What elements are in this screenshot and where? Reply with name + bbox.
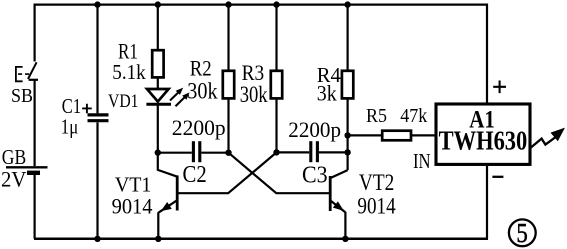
wire top supply rail [34,3,488,5]
wire left branch top (rail to switch) [33,4,35,62]
transistor VT2 base bar [329,176,332,211]
svg-text:R5: R5 [366,105,387,127]
junction dot node C [273,149,279,155]
wire VT1 collector lead [158,153,177,177]
transistor VT1 base bar [176,175,179,210]
wire VT2 emitter to bottom rail [344,212,346,239]
wire R2 to node B [227,98,229,152]
wire R3 to node C [275,98,277,152]
transistor VT2 emitter arrow [333,201,344,211]
wire cross-coupling node C to VT1 base [178,152,276,193]
output radiation zigzag arrow [530,137,556,148]
wire R2 branch from rail [227,5,229,71]
wire node A to C2 left plate [158,152,192,154]
svg-text:9014: 9014 [357,194,396,219]
svg-text:C2: C2 [183,162,207,188]
svg-text:IN: IN [413,149,431,173]
wire VT2 collector lead [331,170,348,178]
resistor R3 body [271,71,282,99]
wire VD1 to node A (VT1 collector node) [157,104,159,152]
junction dot node B [225,150,231,156]
resistor R4 body [342,71,353,99]
capacitor C2 left plate [192,141,195,162]
wire cross-coupling node B to VT2 base [229,153,331,194]
svg-text:5.1k: 5.1k [112,60,146,84]
capacitor C1 top plate [88,113,109,116]
LED VD1 light arrow 1 [170,92,179,100]
wire R4 to VT2 collector node [347,98,349,170]
wire VT2 collector node to R5 [348,134,383,136]
svg-text:2200p: 2200p [172,115,226,140]
switch SB actuator dashed link [18,73,30,75]
junction dot C3/R4 [344,149,350,155]
svg-text:5: 5 [516,218,527,248]
transistor VT1 emitter lead [159,200,178,212]
switch SB pushbutton actuator bracket [16,67,23,81]
svg-text:30k: 30k [240,82,268,107]
svg-text:1μ: 1μ [61,115,78,139]
battery GB short plate [27,171,40,175]
capacitor C1 bottom plate [88,119,109,122]
IC A1 TWH630 box [436,104,530,164]
junction dot rail/R2 [225,1,231,7]
wire R1 branch from rail [157,5,159,51]
svg-text:C3: C3 [302,163,328,189]
resistor R1 body [152,50,163,77]
wire R5 to A1 IN pin [411,134,435,136]
wire C2 right plate to node B [201,152,228,154]
junction dot rail/R3 [273,1,279,7]
wire switch to battery [33,80,35,166]
svg-text:VD1: VD1 [108,91,139,112]
transistor VT1 emitter arrow [161,202,172,211]
junction dot rail/R4 [344,1,350,7]
svg-text:47k: 47k [400,105,427,127]
figure number circle 5 [509,219,536,246]
LED VD1 light arrow 2 [176,97,185,106]
wire bottom ground rail [34,238,488,241]
minus terminal label of A1 [492,176,503,178]
wire R4 branch from rail [347,5,349,71]
svg-text:2200p: 2200p [288,117,341,142]
switch SB bottom contact [29,79,38,81]
label C1 plus polarity [82,104,92,114]
wire R3 branch from rail [275,5,277,71]
wire node C to C3 left plate [277,151,310,153]
junction dot rail/C1 [94,1,100,7]
wire C3 right plate to R4 branch [319,151,348,153]
svg-text:VT2: VT2 [359,170,394,195]
wire right branch top (rail to A1 +) [486,4,488,103]
junction dot R5 tap [344,132,350,138]
svg-text:3k: 3k [317,81,337,106]
capacitor C3 left plate [309,141,312,162]
wire right branch bottom (A1 - to rail) [486,166,488,239]
junction dot ground/VT2 emitter [342,236,348,242]
svg-text:2V: 2V [1,166,26,191]
switch SB blade [28,62,37,79]
svg-text:TWH630: TWH630 [439,126,528,156]
resistor R5 body [382,131,411,141]
svg-text:9014: 9014 [112,194,153,219]
plus terminal label of A1 [493,81,506,94]
transistor VT2 emitter lead [330,200,345,212]
capacitor C2 right plate [198,141,201,162]
capacitor C3 right plate [316,141,319,162]
wire C1 branch upper [96,5,98,114]
wire C1 branch lower [96,122,98,238]
battery GB long plate [6,166,48,168]
svg-text:R2: R2 [190,55,212,80]
wire battery to bottom rail [33,175,35,239]
svg-text:30k: 30k [187,78,218,103]
junction dot node A [155,149,161,155]
junction dot ground/VT1 emitter [155,236,161,242]
junction dot rail/R1 [155,1,161,7]
LED VD1 cathode bar [146,103,171,106]
wire R1 to VD1 [157,77,159,88]
wire VT1 emitter to bottom rail [157,212,159,239]
svg-text:SB: SB [11,85,33,107]
resistor R2 body [223,71,234,99]
junction dot ground/C1 [94,236,100,242]
LED VD1 triangle [147,89,169,102]
